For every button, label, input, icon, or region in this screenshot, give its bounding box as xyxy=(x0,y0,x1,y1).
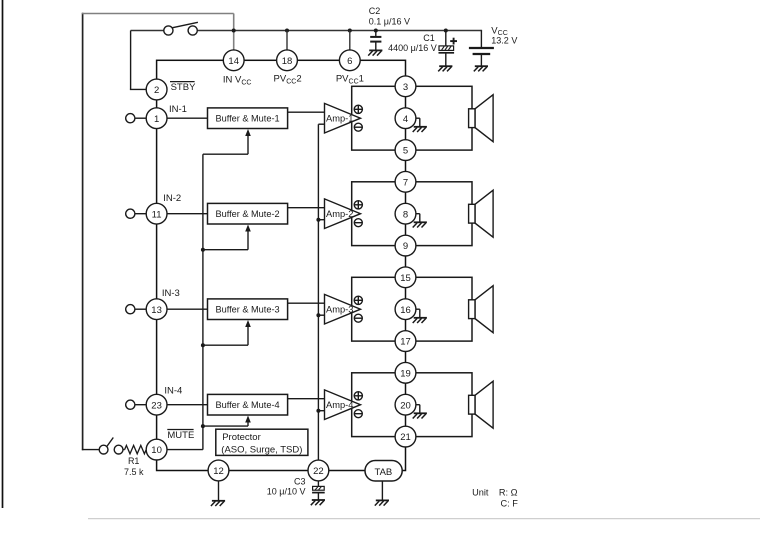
wire output loop channel 4 xyxy=(352,373,472,437)
ground at pin 20 xyxy=(413,405,427,419)
IC package boundary xyxy=(157,60,406,470)
input terminal IN-2 xyxy=(126,209,147,218)
svg-text:TAB: TAB xyxy=(375,467,393,478)
input terminal IN-3 xyxy=(126,305,147,314)
svg-text:IN-2: IN-2 xyxy=(163,193,181,204)
pin 22 ripple filter xyxy=(308,460,329,481)
Amp-4 negative output xyxy=(354,410,362,418)
pin 14 IN Vcc xyxy=(223,50,244,71)
svg-text:Amp-2: Amp-2 xyxy=(326,209,353,219)
pin 18 PVcc2 xyxy=(277,50,298,71)
pin 3 xyxy=(395,76,416,97)
ground at Vcc cell xyxy=(474,66,488,71)
pin 11 input xyxy=(146,203,167,224)
pin 16 xyxy=(395,299,416,320)
svg-text:Buffer & Mute-3: Buffer & Mute-3 xyxy=(215,305,279,315)
wire mute tap to Buffer &amp; Mute-4 with arrowhead xyxy=(201,416,251,429)
label IN-4 xyxy=(164,386,182,397)
svg-text:PVCC2: PVCC2 xyxy=(274,74,302,86)
figure left border frame xyxy=(2,0,4,508)
svg-text:6: 6 xyxy=(347,56,352,67)
ground at pin 16 xyxy=(413,309,427,323)
wire mute tap to Buffer &amp; Mute-1 with arrowhead xyxy=(203,129,251,154)
input terminal IN-4 xyxy=(126,400,147,409)
label PVcc2 xyxy=(274,74,302,86)
svg-text:R: Ω: R: Ω xyxy=(499,487,518,497)
Amp-2 positive output xyxy=(354,201,362,209)
ground at pin 12 xyxy=(211,481,225,506)
pin 9 xyxy=(395,235,416,256)
svg-text:3: 3 xyxy=(403,82,408,93)
svg-text:2: 2 xyxy=(154,85,159,96)
label PVcc1 xyxy=(336,74,364,86)
op-amp Amp-4 xyxy=(325,390,361,420)
pin 17 xyxy=(395,331,416,352)
svg-text:4400 μ/16 V: 4400 μ/16 V xyxy=(388,43,437,53)
figure bottom border frame xyxy=(88,518,760,520)
op-amp Amp-3 xyxy=(325,294,361,324)
wire standby/mute left vertical rail xyxy=(82,13,84,451)
input terminal IN-1 xyxy=(126,114,147,123)
label IN-1 xyxy=(169,104,187,115)
wire Vcc rail left segment to STBY switch xyxy=(131,30,164,32)
wire ripple bus tap to Amp-4 inverting input xyxy=(316,409,325,413)
svg-text:7.5 k: 7.5 k xyxy=(124,467,144,477)
label 13.2 V xyxy=(491,35,517,45)
wire STBY drop to pin 2 xyxy=(130,31,147,90)
svg-text:C3: C3 xyxy=(294,476,306,486)
TAB terminal xyxy=(365,461,402,482)
pin 12 xyxy=(208,460,229,481)
wire pin 1 to Buffer &amp; Mute-1 xyxy=(167,117,208,119)
pin 10 MUTE xyxy=(146,439,167,460)
label STBY (active low) xyxy=(170,82,196,93)
pin 23 input xyxy=(146,394,167,415)
ground at C3 xyxy=(311,500,325,505)
junction rail x pin18 stub xyxy=(285,29,289,33)
svg-text:17: 17 xyxy=(400,337,411,348)
svg-text:Buffer & Mute-2: Buffer & Mute-2 xyxy=(215,209,279,219)
pin 15 xyxy=(395,267,416,288)
svg-text:C1: C1 xyxy=(423,33,435,43)
Amp-3 negative output xyxy=(354,314,362,322)
wire stub rail to pin 6 xyxy=(349,31,351,51)
pin 21 xyxy=(395,426,416,447)
wire to mute switch xyxy=(82,449,99,451)
svg-text:Buffer & Mute-4: Buffer & Mute-4 xyxy=(215,400,279,410)
ground at C1 xyxy=(438,66,452,71)
Amp-1 positive output xyxy=(354,105,362,113)
wire output loop channel 1 xyxy=(352,86,472,150)
svg-text:19: 19 xyxy=(400,368,411,379)
wire pin 11 to Buffer &amp; Mute-2 xyxy=(167,213,208,215)
wire Buffer &amp; Mute-3 to Amp-3 xyxy=(288,302,326,304)
capacitor C3 (polarized) xyxy=(312,481,325,500)
pin 2 STBY xyxy=(146,79,167,100)
block Buffer &amp; Mute-2 xyxy=(208,203,288,224)
block Buffer &amp; Mute-4 xyxy=(208,394,288,415)
label R1 xyxy=(128,456,140,466)
junction rail x C1 xyxy=(444,29,448,33)
pin 6 PVcc1 xyxy=(339,50,360,71)
svg-text:14: 14 xyxy=(228,56,239,67)
svg-text:4: 4 xyxy=(403,114,408,125)
note units xyxy=(472,487,518,508)
resistor R1 xyxy=(123,445,147,453)
svg-text:13.2 V: 13.2 V xyxy=(491,35,517,45)
label IN-2 xyxy=(163,193,181,204)
svg-text:IN-3: IN-3 xyxy=(162,288,180,299)
wire mute tap to Buffer &amp; Mute-3 with arrowhead xyxy=(201,320,251,347)
svg-text:13: 13 xyxy=(151,305,162,316)
junction rail x C2 xyxy=(374,29,378,33)
wire ripple bus tap to Amp-1 inverting input xyxy=(318,123,325,125)
wire Buffer &amp; Mute-4 to Amp-4 xyxy=(288,398,326,400)
wire stub from top wire down to pin 14 (gray) xyxy=(233,14,235,51)
svg-text:Amp-3: Amp-3 xyxy=(326,305,353,315)
svg-text:22: 22 xyxy=(313,466,324,477)
wire Buffer &amp; Mute-2 to Amp-2 xyxy=(288,207,326,209)
wire Vcc rail right of switch xyxy=(197,30,481,32)
wire Buffer &amp; Mute-1 to Amp-1 xyxy=(288,111,326,113)
svg-text:Amp-4: Amp-4 xyxy=(326,400,353,410)
label Vcc xyxy=(491,25,507,37)
label C1 xyxy=(423,33,435,43)
junction rail x pin14 stub xyxy=(232,29,236,33)
capacitor C1 (polarized) xyxy=(439,31,458,67)
wire ripple bus tap to Amp-3 inverting input xyxy=(316,313,325,317)
wire pin 13 to Buffer &amp; Mute-3 xyxy=(167,308,208,310)
junction rail x pin6 stub xyxy=(348,29,352,33)
svg-text:STBY: STBY xyxy=(171,82,196,93)
wire ripple-filter bus vertical (pin 22) xyxy=(317,124,319,460)
label R1 value xyxy=(124,467,144,477)
svg-text:11: 11 xyxy=(152,209,162,220)
wire stub rail to pin 18 xyxy=(286,31,288,51)
label C3 value xyxy=(267,487,306,497)
svg-text:PVCC1: PVCC1 xyxy=(336,74,364,86)
svg-text:IN-1: IN-1 xyxy=(169,104,187,115)
wire pin 10 to mute bus xyxy=(167,449,203,451)
wire mute tap to Buffer &amp; Mute-2 with arrowhead xyxy=(201,225,251,252)
svg-text:10: 10 xyxy=(151,445,162,456)
svg-text:MUTE: MUTE xyxy=(167,430,194,441)
wire top horizontal (gray) xyxy=(82,13,234,15)
pin 5 xyxy=(395,140,416,161)
svg-text:9: 9 xyxy=(403,241,408,252)
pin 4 xyxy=(395,108,416,129)
Amp-1 negative output xyxy=(354,123,362,131)
label C3 xyxy=(294,476,306,486)
svg-text:20: 20 xyxy=(400,400,411,411)
svg-text:Amp-1: Amp-1 xyxy=(326,114,353,124)
ground at pin 4 xyxy=(413,118,427,132)
capacitor C2 xyxy=(370,31,381,51)
wire output loop channel 2 xyxy=(352,182,472,246)
label MUTE (active low) xyxy=(167,430,194,442)
speaker channel 3 xyxy=(469,286,494,333)
svg-text:IN-4: IN-4 xyxy=(164,386,182,397)
speaker channel 1 xyxy=(469,95,494,142)
svg-text:5: 5 xyxy=(403,146,408,157)
svg-text:8: 8 xyxy=(403,209,408,220)
ground at pin 8 xyxy=(413,214,427,228)
op-amp Amp-1 xyxy=(325,103,361,133)
pin 19 xyxy=(395,362,416,383)
svg-text:Protector: Protector xyxy=(222,432,261,443)
svg-text:15: 15 xyxy=(400,273,411,284)
svg-text:0.1 μ/16 V: 0.1 μ/16 V xyxy=(369,17,410,27)
label IN-3 xyxy=(162,288,180,299)
ground at C2 xyxy=(368,50,382,55)
speaker channel 2 xyxy=(469,190,494,237)
svg-text:C: F: C: F xyxy=(501,498,519,508)
svg-text:16: 16 xyxy=(400,305,411,316)
wire mute bus vertical xyxy=(202,154,204,449)
op-amp Amp-2 xyxy=(325,199,361,229)
label C2 value xyxy=(369,6,410,27)
block Protector xyxy=(216,429,308,455)
svg-text:IN VCC: IN VCC xyxy=(223,75,252,87)
pin 1 input xyxy=(146,108,167,129)
svg-text:23: 23 xyxy=(151,400,162,411)
svg-text:(ASO, Surge, TSD): (ASO, Surge, TSD) xyxy=(221,444,302,455)
svg-text:10 μ/10 V: 10 μ/10 V xyxy=(267,487,306,497)
svg-text:7: 7 xyxy=(403,177,408,188)
wire pin 23 to Buffer &amp; Mute-4 xyxy=(167,404,208,406)
speaker channel 4 xyxy=(469,381,494,428)
wire ripple bus tap to Amp-2 inverting input xyxy=(316,218,325,222)
pin 13 input xyxy=(146,299,167,320)
Amp-3 positive output xyxy=(354,296,362,304)
ground at TAB xyxy=(375,481,389,506)
Amp-2 negative output xyxy=(354,219,362,227)
supply Vcc cell xyxy=(469,31,494,67)
wire output loop channel 3 xyxy=(352,277,472,341)
svg-text:C2: C2 xyxy=(369,6,381,16)
Amp-4 positive output xyxy=(354,392,362,400)
svg-text:Unit: Unit xyxy=(472,487,489,497)
svg-text:R1: R1 xyxy=(128,456,140,466)
switch S1 (STBY) contacts xyxy=(164,22,198,35)
switch S2 (MUTE) contacts xyxy=(99,438,123,455)
svg-text:Buffer & Mute-1: Buffer & Mute-1 xyxy=(215,114,279,124)
block Buffer &amp; Mute-1 xyxy=(208,108,288,129)
label C1 value xyxy=(388,43,437,53)
block Buffer &amp; Mute-3 xyxy=(208,299,288,320)
svg-text:12: 12 xyxy=(213,466,224,477)
pin 7 xyxy=(395,171,416,192)
pin 8 xyxy=(395,203,416,224)
svg-text:1: 1 xyxy=(154,114,159,125)
pin 20 xyxy=(395,394,416,415)
svg-text:21: 21 xyxy=(400,432,411,443)
label IN Vcc xyxy=(223,75,252,87)
svg-text:18: 18 xyxy=(282,56,293,67)
